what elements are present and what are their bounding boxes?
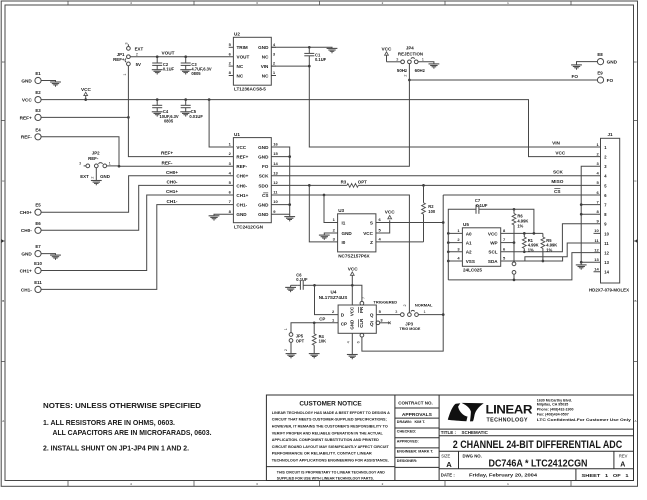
svg-text:TRIGGERED: TRIGGERED <box>373 299 397 304</box>
ground E7 <box>50 255 61 260</box>
svg-text:1%: 1% <box>517 223 523 228</box>
svg-text:E4: E4 <box>35 127 41 132</box>
ground C2 <box>152 70 163 75</box>
wire JP2 pin1 to REF- <box>107 165 119 167</box>
svg-text:VCC: VCC <box>363 231 373 236</box>
svg-text:MISO: MISO <box>551 179 563 184</box>
svg-text:VCC: VCC <box>382 46 393 51</box>
junction CS node <box>323 194 326 197</box>
svg-text:A: A <box>446 460 452 469</box>
svg-text:GND: GND <box>100 174 110 179</box>
svg-text:14: 14 <box>604 270 609 275</box>
ground U1 right <box>284 217 295 222</box>
wire E8 to ground <box>577 62 598 65</box>
svg-text:R3: R3 <box>341 179 347 184</box>
svg-text:0.1UF: 0.1UF <box>163 67 175 72</box>
resistor R6 <box>512 209 528 242</box>
svg-text:14: 14 <box>273 161 278 166</box>
resistor R3 <box>347 184 358 188</box>
svg-text:JP3: JP3 <box>405 322 413 327</box>
svg-text:E10: E10 <box>34 261 42 266</box>
ground E1 <box>50 82 61 87</box>
svg-text:50Hz: 50Hz <box>397 68 408 73</box>
svg-text:SCHEMATIC: SCHEMATIC <box>462 430 489 435</box>
svg-text:SCK: SCK <box>553 170 564 175</box>
wire SDO/MISO row left <box>271 184 347 186</box>
svg-text:REF-: REF- <box>21 135 32 140</box>
wire FO vertical from U1 pin14 <box>271 80 409 166</box>
title block frame <box>266 395 633 481</box>
svg-text:CONTRACT NO.: CONTRACT NO. <box>398 401 433 406</box>
power symbol U4 VCC <box>348 267 359 286</box>
svg-text:13: 13 <box>594 257 599 262</box>
wire D input from C6 node <box>315 285 339 314</box>
svg-text:U4: U4 <box>331 290 337 295</box>
svg-text:2 CHANNEL 24-BIT DIFFERENTIAL: 2 CHANNEL 24-BIT DIFFERENTIAL ADC <box>453 439 623 451</box>
svg-text:NL17SZ74US: NL17SZ74US <box>319 295 348 300</box>
wire SDA jog to J1 pin11 <box>525 243 601 261</box>
resistor R5 <box>541 233 557 261</box>
svg-text:J1: J1 <box>608 132 614 137</box>
ground J1 <box>576 265 587 270</box>
svg-text:CH1-: CH1- <box>21 287 32 292</box>
svg-text:SDO: SDO <box>258 183 268 188</box>
svg-text:0805: 0805 <box>164 119 174 124</box>
svg-text:3: 3 <box>125 42 129 44</box>
jumper JP2 <box>79 151 112 181</box>
capacitor C1 <box>304 47 326 66</box>
svg-text:VSS: VSS <box>466 259 475 264</box>
svg-text:60Hz: 60Hz <box>415 68 426 73</box>
junction REF- node <box>118 165 121 168</box>
wire U5 address pins bus <box>448 233 462 261</box>
turret E7 <box>21 244 41 257</box>
wire U3 Z pin4 to R2 <box>376 241 424 243</box>
svg-text:VIN: VIN <box>261 64 269 69</box>
wire U5 WP row <box>501 242 514 244</box>
svg-text:VOUT: VOUT <box>161 51 174 56</box>
wire E7 to ground <box>41 254 55 256</box>
wire U1 VCC pin1 from rail <box>209 100 233 147</box>
junction REF+ node <box>127 116 130 119</box>
svg-text:2: 2 <box>403 74 407 76</box>
svg-text:2: 2 <box>91 176 95 178</box>
svg-text:DATE :: DATE : <box>441 472 456 477</box>
svg-text:1: 1 <box>284 328 288 330</box>
svg-text:CH1-: CH1- <box>236 203 247 208</box>
svg-text:REF-: REF- <box>236 164 247 169</box>
wire U5 VCC row <box>501 232 543 234</box>
svg-text:VCC: VCC <box>81 87 92 92</box>
power symbol JP4 VCC <box>382 46 393 61</box>
wire U4 CLR to CS vertical <box>362 195 443 351</box>
wire JP3 pin1 to CS vertical <box>418 314 443 316</box>
turret E11 <box>21 280 42 293</box>
svg-text:REF+: REF+ <box>161 151 173 156</box>
capacitor C4 <box>152 100 179 124</box>
svg-text:GND: GND <box>349 320 354 330</box>
svg-text:2. INSTALL SHUNT ON JP1-JP4 P: 2. INSTALL SHUNT ON JP1-JP4 PIN 1 AND 2. <box>43 446 189 453</box>
capacitor C6 <box>291 272 315 290</box>
logo cell <box>439 398 633 429</box>
svg-text:VCC: VCC <box>385 210 396 215</box>
svg-text:CLR: CLR <box>359 318 364 328</box>
svg-text:APPROVED:: APPROVED: <box>397 440 419 444</box>
svg-text:EXT: EXT <box>135 46 144 51</box>
svg-text:0.01UF: 0.01UF <box>189 114 203 119</box>
wire E6 CH0- <box>41 185 233 230</box>
svg-text:CP: CP <box>319 317 325 322</box>
svg-text:NOTES: UNLESS OTHERWISE SPECI: NOTES: UNLESS OTHERWISE SPECIFIED <box>43 401 202 410</box>
svg-text:EXT: EXT <box>80 174 89 179</box>
svg-text:0805: 0805 <box>191 71 201 76</box>
wire U3 S pin6 to CS vertical <box>376 222 443 224</box>
svg-text:E6: E6 <box>35 221 41 226</box>
svg-text:NC: NC <box>262 55 269 60</box>
jumper JP3 <box>373 299 433 331</box>
svg-text:16: 16 <box>273 142 278 147</box>
border zone tick marks <box>67 1 69 5</box>
svg-text:LTC Confidential-For Customer: LTC Confidential-For Customer Use Only <box>537 418 631 422</box>
svg-text:JP1: JP1 <box>117 52 125 57</box>
svg-text:DC746A * LTC2412CGN: DC746A * LTC2412CGN <box>489 459 588 470</box>
svg-text:CIRCUIT BOARD LAYOUT MAY SIGNI: CIRCUIT BOARD LAYOUT MAY SIGNIFICANTLY A… <box>272 445 389 449</box>
wire SCL row to J1 pin9 <box>501 224 601 252</box>
svg-text:U2: U2 <box>234 32 240 37</box>
wire U4 GND pin <box>351 333 353 354</box>
svg-text:GND: GND <box>258 203 269 208</box>
ground U4 <box>347 355 358 360</box>
capacitor C2 <box>152 57 174 72</box>
eeprom U5 <box>457 222 506 272</box>
svg-text:CH1+: CH1+ <box>20 268 32 273</box>
svg-text:VCC: VCC <box>348 267 359 272</box>
svg-text:B: B <box>634 299 636 303</box>
svg-text:NORMAL: NORMAL <box>415 302 433 307</box>
svg-text:Q: Q <box>370 321 374 326</box>
svg-text:NC: NC <box>237 64 244 69</box>
wire U2 VIN to J1 pin1 <box>271 66 600 147</box>
svg-text:B: B <box>2 299 4 303</box>
svg-text:CH0-: CH0- <box>21 228 32 233</box>
svg-text:GND: GND <box>258 145 269 150</box>
wire E5 CH0+ <box>41 176 233 212</box>
resistor R1 <box>522 233 538 252</box>
svg-text:DESIGNER:: DESIGNER: <box>397 459 418 463</box>
svg-text:VCC: VCC <box>555 151 566 156</box>
mux U3 <box>333 208 382 258</box>
svg-text:HOWEVER, IT REMAINS THE CUSTOM: HOWEVER, IT REMAINS THE CUSTOMER'S RESPO… <box>272 425 388 429</box>
ground U2 <box>327 48 338 53</box>
jumper JP5 <box>284 328 304 353</box>
approvals column <box>395 401 439 468</box>
svg-text:ALL CAPACITORS ARE IN MICROFAR: ALL CAPACITORS ARE IN MICROFARADS, 0603. <box>53 430 212 437</box>
svg-text:VERIFY PROPER AND RELIABLE OPE: VERIFY PROPER AND RELIABLE OPERATION IN … <box>272 431 383 435</box>
wire E10 CH1+ <box>41 195 233 271</box>
svg-text:S: S <box>370 220 373 225</box>
svg-text:APPLICATION. COMPONENT SUBSTI: APPLICATION. COMPONENT SUBSTITUTION AND … <box>272 438 380 442</box>
wire FO to E9 <box>409 79 597 81</box>
svg-text:13: 13 <box>604 260 609 265</box>
turret E4 <box>21 127 41 140</box>
wire host CS to J1 pin6 <box>443 194 600 196</box>
svg-text:APPROVALS: APPROVALS <box>402 412 433 418</box>
wire U1 GND pin8 <box>214 214 233 216</box>
svg-text:VCC: VCC <box>236 145 246 150</box>
turret E3 <box>20 108 42 121</box>
svg-text:2: 2 <box>403 304 407 306</box>
wire JP4 pin3 <box>387 61 401 63</box>
svg-text:10: 10 <box>273 199 278 204</box>
jumper WP posts <box>512 243 516 280</box>
svg-text:SDA: SDA <box>488 259 498 264</box>
svg-text:A2: A2 <box>466 250 472 255</box>
svg-text:1. ALL RESISTORS ARE IN OHMS,: 1. ALL RESISTORS ARE IN OHMS, 0603. <box>43 420 175 427</box>
wire E11 CH1- <box>41 205 233 290</box>
svg-text:TECHNOLOGY: TECHNOLOGY <box>487 418 529 424</box>
svg-text:Z: Z <box>370 240 373 245</box>
ground JP4 <box>429 64 440 69</box>
turret E2 <box>22 90 41 103</box>
svg-text:E3: E3 <box>35 108 41 113</box>
junction SDO node <box>308 184 311 187</box>
wire E3 REF+ <box>41 116 128 118</box>
svg-text:VCC: VCC <box>22 98 33 103</box>
ground U1 pin8 <box>209 216 220 221</box>
svg-text:13: 13 <box>273 170 278 175</box>
svg-text:CH0+: CH0+ <box>236 174 248 179</box>
svg-text:10K: 10K <box>319 339 327 344</box>
svg-text:E9: E9 <box>597 71 603 76</box>
svg-text:VOUT: VOUT <box>237 55 250 60</box>
svg-text:FO: FO <box>262 164 269 169</box>
svg-text:CUSTOMER NOTICE: CUSTOMER NOTICE <box>299 400 362 407</box>
voltage reference U2 <box>229 32 276 92</box>
wire E4 REF- to U1 pin3 <box>41 137 233 166</box>
svg-text:E7: E7 <box>35 244 41 249</box>
svg-text:1: 1 <box>123 73 127 75</box>
svg-text:12: 12 <box>273 180 278 185</box>
svg-text:I1: I1 <box>342 220 346 225</box>
svg-text:OPT: OPT <box>296 338 305 343</box>
svg-text:GND: GND <box>258 212 269 217</box>
wire U4 VCC pin from C6 node <box>351 285 353 305</box>
wire C7 to corner <box>479 209 534 233</box>
ground C4 <box>152 112 163 117</box>
svg-text:SCL: SCL <box>488 250 497 255</box>
svg-text:REJECTION: REJECTION <box>398 51 423 56</box>
svg-text:CH0+: CH0+ <box>166 170 178 175</box>
svg-text:11: 11 <box>604 241 609 246</box>
wire U3 VCC pin5 <box>376 220 390 233</box>
svg-text:KIM T.: KIM T. <box>415 420 426 424</box>
svg-text:GND: GND <box>21 78 32 83</box>
svg-text:A0: A0 <box>466 231 472 236</box>
svg-text:LINEAR TECHNOLOGY HAS MADE A B: LINEAR TECHNOLOGY HAS MADE A BEST EFFORT… <box>272 411 391 415</box>
ground E8 <box>571 65 582 70</box>
svg-text:JP2: JP2 <box>92 151 100 156</box>
wire CS branch to U3 I1 <box>324 195 338 223</box>
svg-text:ENGINEER: MARK T.: ENGINEER: MARK T. <box>397 450 434 454</box>
svg-text:100: 100 <box>428 209 436 214</box>
turret E5 <box>20 203 42 216</box>
capacitor C7 <box>475 198 488 214</box>
svg-text:E11: E11 <box>34 280 42 285</box>
svg-text:TITLE :: TITLE : <box>441 430 457 435</box>
wire U5 ground loop with C7 rail <box>448 209 476 280</box>
wire JP1 pin1 down to REF+ <box>127 66 129 118</box>
wire U5 ground rail to J1 pin12 <box>448 253 600 280</box>
junction FO node <box>408 79 411 82</box>
power symbol VCC rail <box>81 87 92 100</box>
svg-text:NC7SZ157P6X: NC7SZ157P6X <box>338 253 370 258</box>
ground C3 <box>180 70 191 75</box>
turret E9 <box>597 71 613 84</box>
svg-text:A: A <box>620 461 625 468</box>
ground JP2 <box>91 181 102 186</box>
svg-text:HD2X7-079-MOLEX: HD2X7-079-MOLEX <box>589 288 629 293</box>
svg-text:CH1+: CH1+ <box>166 189 178 194</box>
svg-text:REF+: REF+ <box>20 115 32 120</box>
svg-text:DWG NO.: DWG NO. <box>463 454 482 459</box>
svg-text:4: 4 <box>347 341 351 343</box>
capacitor C3 <box>181 57 212 76</box>
svg-text:SCK: SCK <box>259 174 269 179</box>
wire E1 to ground <box>41 81 55 83</box>
ground JP5 <box>286 354 297 359</box>
svg-text:REF+: REF+ <box>236 155 248 160</box>
svg-text:12: 12 <box>604 251 609 256</box>
svg-text:U3: U3 <box>338 208 344 213</box>
svg-text:GND: GND <box>258 45 269 50</box>
svg-text:CS: CS <box>554 189 561 194</box>
svg-text:U5: U5 <box>463 222 469 227</box>
flip-flop U4 <box>319 290 384 344</box>
resistor R4 <box>312 323 326 354</box>
svg-text:I0: I0 <box>342 240 346 245</box>
customer notice box <box>266 400 395 480</box>
wire SDO branch to U3 I0 <box>309 185 337 242</box>
svg-text:E8: E8 <box>597 52 603 57</box>
svg-text:PR: PR <box>359 306 364 313</box>
svg-text:SUPPLIED FOR USE WITH LINEAR T: SUPPLIED FOR USE WITH LINEAR TECHNOLOGY … <box>277 477 374 481</box>
wire REF+ to U1 pin2 <box>128 117 233 156</box>
wire C6 to VCC and PR <box>315 285 362 301</box>
turret E10 <box>20 261 43 274</box>
svg-text:GND: GND <box>236 212 247 217</box>
address <box>537 398 631 422</box>
svg-text:PERFORMANCE OR RELIABILITY. C: PERFORMANCE OR RELIABILITY. CONTACT LINE… <box>272 452 373 456</box>
svg-text:A: A <box>2 419 4 423</box>
svg-text:7: 7 <box>362 297 366 299</box>
wire SDA row <box>501 257 563 261</box>
svg-text:FO: FO <box>572 74 579 79</box>
svg-text:10: 10 <box>594 228 599 233</box>
svg-text:CH0-: CH0- <box>236 183 247 188</box>
svg-text:GND: GND <box>607 60 618 65</box>
svg-text:SHEET 1 OF 1: SHEET 1 OF 1 <box>582 473 630 478</box>
svg-text:A: A <box>634 419 636 423</box>
svg-text:VIN: VIN <box>552 141 560 146</box>
wire U2 GND pin4 <box>271 47 332 48</box>
wire SDO/MISO row right <box>358 184 600 186</box>
LTC logo mark <box>448 403 468 421</box>
svg-text:THIS CIRCUIT IS PROPRIETARY TO: THIS CIRCUIT IS PROPRIETARY TO LINEAR TE… <box>277 470 386 474</box>
svg-text:0.1UF: 0.1UF <box>296 277 308 282</box>
svg-text:NC: NC <box>262 73 269 78</box>
svg-text:GND: GND <box>21 252 32 257</box>
wire CP row <box>291 323 338 333</box>
svg-text:LTC2412CGN: LTC2412CGN <box>234 224 264 229</box>
svg-text:LINEAR: LINEAR <box>486 403 534 417</box>
svg-text:E5: E5 <box>35 203 41 208</box>
svg-text:Fax: (408)434-0507: Fax: (408)434-0507 <box>537 413 569 417</box>
svg-text:CH1+: CH1+ <box>236 193 248 198</box>
ground C5 <box>180 112 191 117</box>
jumper JP1 <box>113 42 143 75</box>
turret E1 <box>21 71 41 84</box>
turret E6 <box>21 221 41 234</box>
wire U1 right GND pins <box>271 147 289 214</box>
title rows <box>439 430 633 480</box>
svg-text:FO: FO <box>607 78 614 83</box>
svg-text:12: 12 <box>594 247 599 252</box>
svg-text:U1: U1 <box>234 132 240 137</box>
svg-text:2: 2 <box>284 349 288 351</box>
ground U3 <box>319 235 330 240</box>
turret E8 <box>597 52 617 65</box>
svg-text:REF-: REF- <box>88 156 99 161</box>
connector J1 <box>589 132 629 293</box>
svg-text:CS: CS <box>262 193 268 198</box>
svg-text:TRIG MODE: TRIG MODE <box>399 327 420 331</box>
J1 pin numbers inside <box>604 145 609 275</box>
svg-text:Phone: (408)432-1900: Phone: (408)432-1900 <box>537 408 574 412</box>
svg-text:JP4: JP4 <box>406 46 414 51</box>
svg-text:5V: 5V <box>136 62 141 67</box>
svg-text:GND: GND <box>342 231 353 236</box>
ground C6 <box>285 287 296 292</box>
svg-text:A1: A1 <box>466 241 472 246</box>
resistor R2 <box>422 185 436 242</box>
capacitor C5 <box>181 100 204 119</box>
svg-text:Q: Q <box>370 313 374 318</box>
svg-text:WP: WP <box>490 241 497 246</box>
wire J1 ground pins 3 7 8 13 <box>581 166 600 262</box>
svg-text:TECHNOLOGY APPLICATIONS ENGINE: TECHNOLOGY APPLICATIONS ENGINEERING FOR … <box>272 459 389 463</box>
svg-text:E2: E2 <box>35 90 41 95</box>
svg-text:DRAWN:: DRAWN: <box>397 420 412 424</box>
svg-text:15: 15 <box>273 151 278 156</box>
wire U4 Qbar no-connect <box>380 322 390 324</box>
svg-text:14: 14 <box>594 267 599 272</box>
svg-text:TRIM: TRIM <box>237 45 248 50</box>
svg-text:0.1UF: 0.1UF <box>315 57 327 62</box>
wire SCK row <box>271 175 600 177</box>
power symbol U3 VCC <box>385 210 396 219</box>
svg-text:REF+: REF+ <box>113 57 125 62</box>
svg-text:CH0-: CH0- <box>167 180 178 185</box>
junction VCC rail <box>84 98 87 101</box>
svg-text:Friday, February 20, 2004: Friday, February 20, 2004 <box>469 472 538 477</box>
svg-text:NC: NC <box>237 73 244 78</box>
wire JP4 pin1 to ground <box>418 62 434 64</box>
svg-text:0.1UF: 0.1UF <box>476 203 488 208</box>
ground R4 <box>309 354 320 359</box>
wire CS row from U1 pin11 <box>271 195 409 313</box>
svg-text:GND: GND <box>258 155 269 160</box>
J1 stub pins 10 and 14 <box>594 233 601 271</box>
